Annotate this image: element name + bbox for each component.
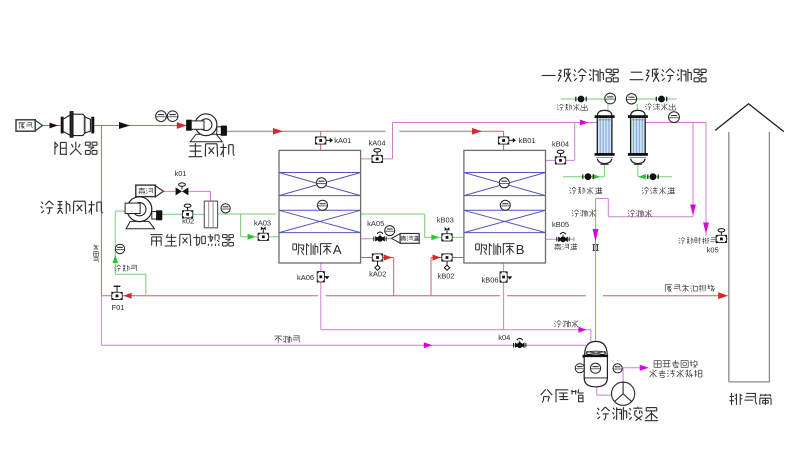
svg-text:k01: k01 <box>174 169 186 178</box>
svg-text:k05: k05 <box>707 245 719 254</box>
svg-text:F01: F01 <box>112 303 125 312</box>
svg-text:kB04: kB04 <box>552 139 569 148</box>
svg-text:kA05: kA05 <box>367 219 384 228</box>
svg-text:kB03: kB03 <box>437 215 454 224</box>
svg-text:kA04: kA04 <box>368 138 385 147</box>
svg-text:k04: k04 <box>498 333 510 342</box>
svg-text:kB02: kB02 <box>437 272 454 281</box>
svg-text:kA01: kA01 <box>334 136 351 145</box>
svg-text:kA03: kA03 <box>254 218 271 227</box>
svg-text:kB05: kB05 <box>552 220 569 229</box>
svg-text:kA06: kA06 <box>297 273 314 282</box>
svg-text:B: B <box>516 242 525 257</box>
svg-text:kA02: kA02 <box>369 270 386 279</box>
svg-text:k02: k02 <box>182 217 194 226</box>
svg-text:A: A <box>333 242 342 257</box>
svg-text:kB06: kB06 <box>481 276 498 285</box>
svg-text:kB01: kB01 <box>518 136 535 145</box>
